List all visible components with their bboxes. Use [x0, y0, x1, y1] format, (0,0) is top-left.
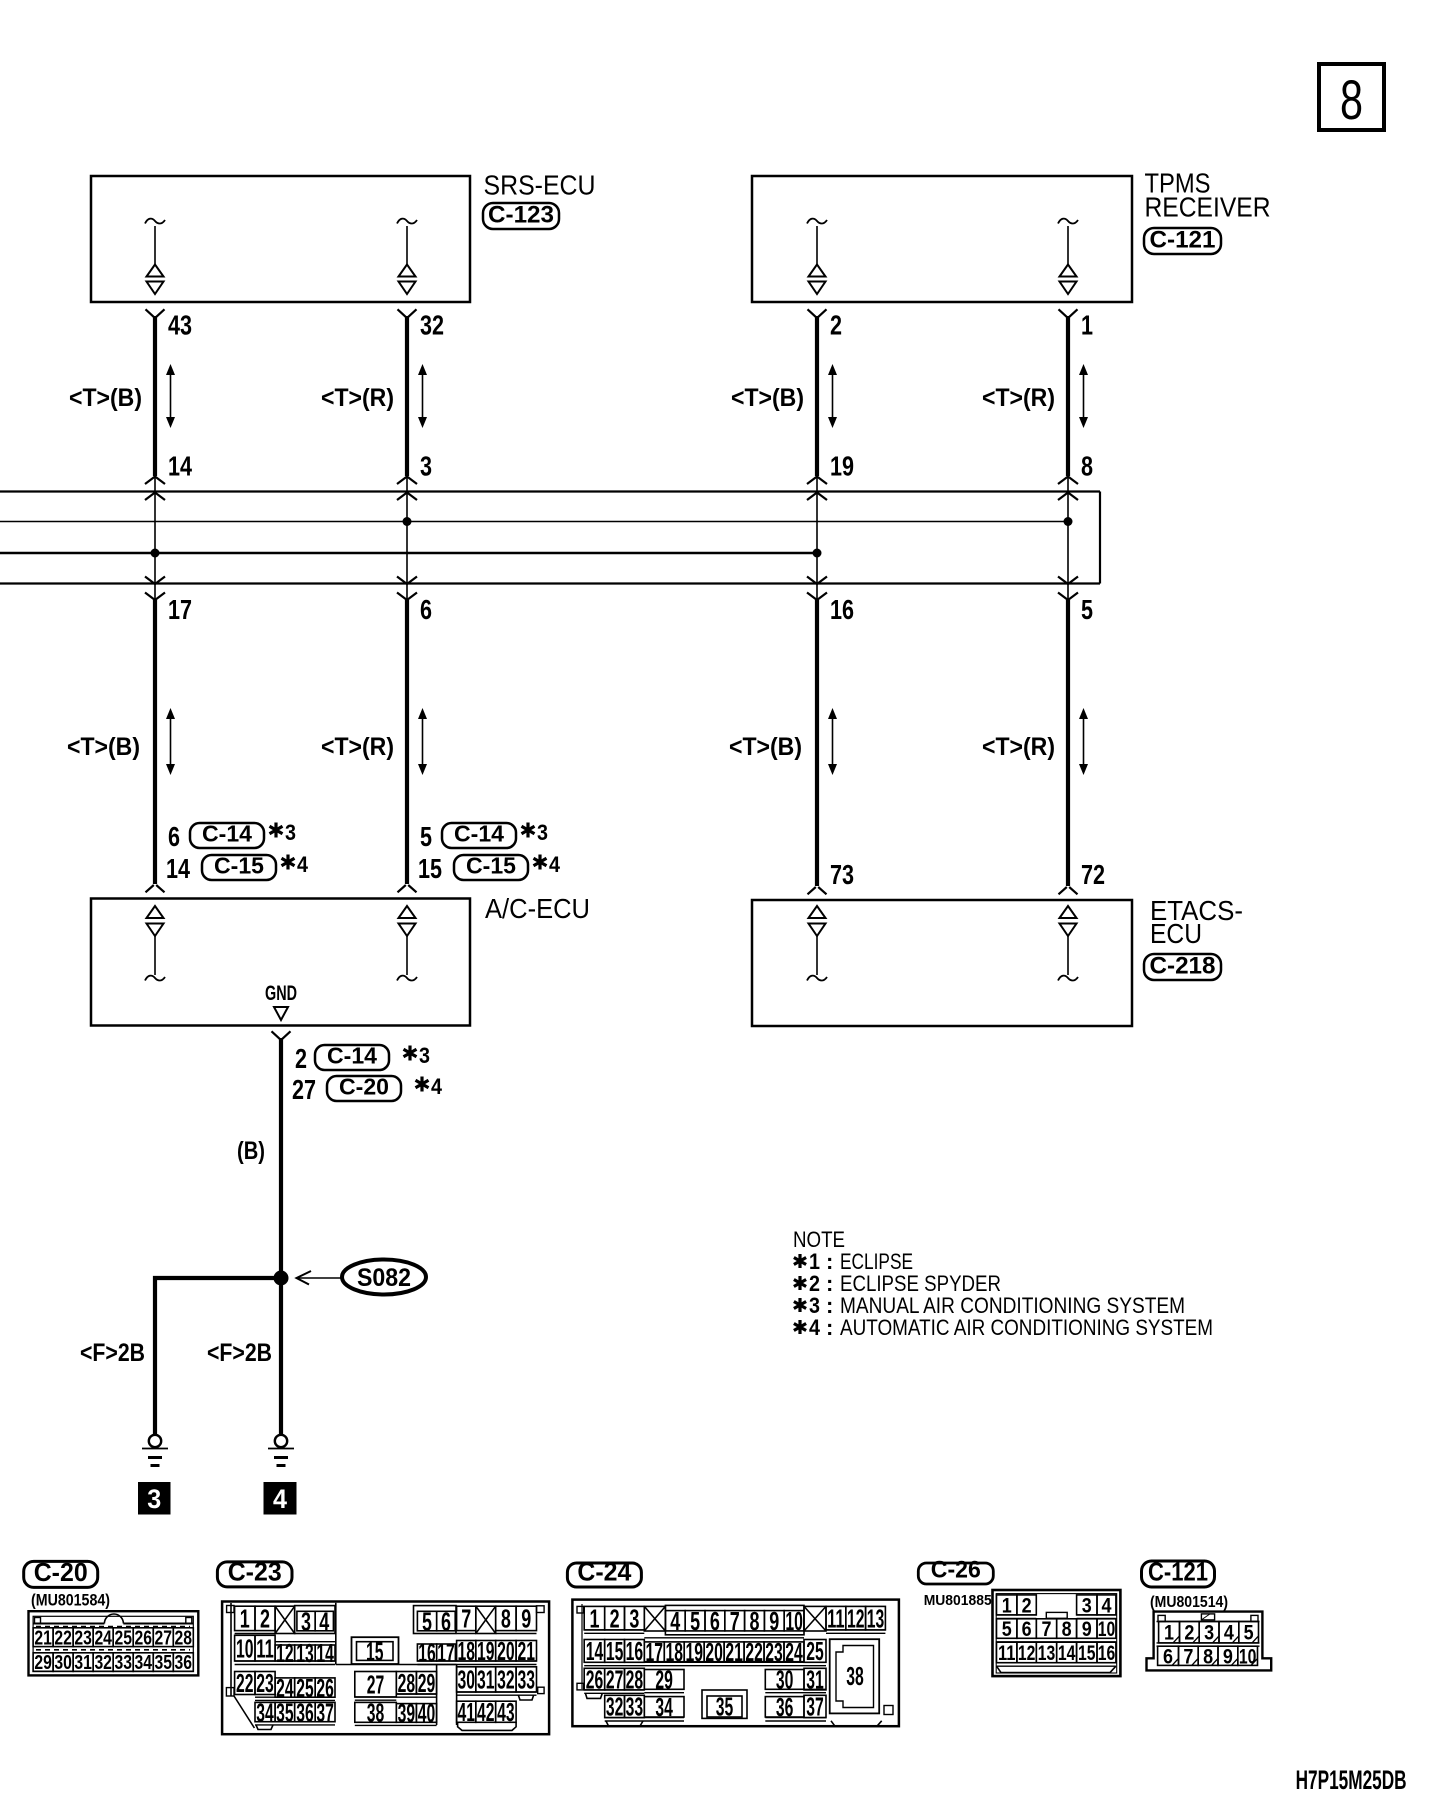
svg-text:3: 3	[629, 1603, 639, 1633]
svg-text:8: 8	[750, 1606, 760, 1636]
svg-text:5: 5	[422, 1606, 432, 1636]
svg-text:<F>2B: <F>2B	[207, 1339, 272, 1367]
svg-text:3: 3	[420, 451, 432, 482]
ground symbol right	[268, 1435, 294, 1466]
svg-text:27: 27	[292, 1074, 316, 1105]
fork entering ETACS-ECU right	[1059, 887, 1078, 894]
svg-text:C-123: C-123	[488, 202, 554, 229]
C-23 inner structure	[230, 1603, 232, 1696]
svg-text:(MU801514): (MU801514)	[1150, 1594, 1228, 1611]
svg-text:35: 35	[276, 1697, 294, 1727]
terminal chevrons leaving bus at x=1068	[1058, 577, 1078, 585]
ECU box TPMS RECEIVER	[752, 176, 1132, 302]
svg-text:6: 6	[710, 1606, 720, 1636]
fork entering A/C-ECU second	[398, 885, 417, 892]
svg-text:32: 32	[497, 1665, 515, 1695]
svg-text:4: 4	[431, 1074, 443, 1099]
svg-text:16: 16	[1098, 1642, 1116, 1665]
wire pin 1 down to joint	[1066, 316, 1070, 476]
svg-text:<T>(R): <T>(R)	[982, 733, 1055, 761]
svg-text:3: 3	[1204, 1622, 1214, 1645]
svg-text:38: 38	[846, 1661, 864, 1691]
svg-text:C-121: C-121	[1148, 1557, 1208, 1587]
svg-text:34: 34	[256, 1697, 274, 1727]
svg-text:19: 19	[830, 451, 854, 482]
svg-text:5: 5	[1002, 1618, 1012, 1641]
svg-text:C-24: C-24	[577, 1557, 632, 1587]
note *2 : ECLIPSE SPYDER	[794, 1276, 806, 1290]
ground reference box 3	[138, 1482, 171, 1515]
svg-text:5: 5	[1081, 594, 1093, 625]
svg-text:2: 2	[1184, 1622, 1194, 1645]
svg-text:26: 26	[134, 1627, 152, 1649]
wire pin 2 down to joint	[815, 316, 819, 476]
svg-text:4: 4	[670, 1606, 680, 1636]
svg-text:C-15: C-15	[466, 853, 516, 879]
joint connector right edge	[1099, 492, 1101, 584]
C-26 row1 pins 1-4	[997, 1595, 1017, 1615]
svg-text:28: 28	[175, 1627, 193, 1649]
svg-text:17: 17	[168, 594, 192, 625]
C-23 row2 pins 10-21	[235, 1635, 255, 1661]
svg-text:C-218: C-218	[1150, 953, 1216, 980]
svg-text:2: 2	[1022, 1594, 1032, 1617]
fork entering ETACS-ECU left	[808, 887, 827, 894]
C-23 row2 pins 16-21	[417, 1644, 436, 1661]
svg-text:5: 5	[690, 1606, 700, 1636]
svg-text:38: 38	[367, 1698, 385, 1728]
C-24 row3 pins 26-31	[584, 1668, 605, 1690]
svg-text:35: 35	[716, 1692, 734, 1722]
svg-text:8: 8	[501, 1604, 511, 1634]
C-121 connector body	[1147, 1612, 1272, 1671]
svg-text:37: 37	[316, 1697, 334, 1727]
terminal chevrons entering bus at x=407	[397, 477, 417, 485]
svg-text:30: 30	[54, 1652, 72, 1674]
C-24 connector body	[572, 1600, 899, 1727]
connector label C-218	[1144, 954, 1221, 980]
splice junction dot S082	[274, 1271, 289, 1286]
svg-text:3: 3	[419, 1043, 430, 1068]
svg-text:8: 8	[1062, 1618, 1072, 1641]
svg-text:43: 43	[168, 310, 192, 341]
connector view C-121 label	[1142, 1561, 1215, 1587]
connector view C-24 label	[567, 1563, 641, 1587]
svg-text:4: 4	[273, 1484, 287, 1514]
fork entering A/C-ECU left	[146, 885, 165, 892]
svg-text:27: 27	[367, 1669, 385, 1699]
svg-text::: :	[826, 1315, 833, 1340]
svg-text:11: 11	[827, 1603, 845, 1633]
connector view C-20 label	[24, 1561, 98, 1587]
svg-text:RECEIVER: RECEIVER	[1145, 192, 1271, 223]
C-23 row1 pins 1-9	[235, 1606, 255, 1630]
ECU box A/C-ECU	[91, 899, 470, 1026]
C-24 row2 pins 14-25	[584, 1640, 605, 1663]
svg-text:23: 23	[256, 1668, 274, 1698]
svg-text:34: 34	[134, 1652, 152, 1674]
junction dot wire B right	[813, 549, 822, 558]
svg-text:42: 42	[477, 1697, 495, 1727]
svg-text:9: 9	[1082, 1618, 1092, 1641]
TPMS internal terminal pin 2	[807, 219, 827, 294]
ground symbol left	[142, 1435, 168, 1466]
svg-text:4: 4	[297, 852, 309, 877]
svg-text:C-14: C-14	[202, 821, 252, 847]
svg-text:2: 2	[830, 310, 842, 341]
connector view C-23 label	[217, 1562, 292, 1587]
ground reference box 4	[264, 1482, 297, 1515]
svg-text:13: 13	[1038, 1642, 1056, 1665]
joint connector bus line B (to other page)	[0, 552, 817, 555]
C-26 row3 pins 11-16	[997, 1642, 1017, 1663]
A/C-ECU internal terminal left	[145, 906, 165, 981]
svg-text:7: 7	[730, 1606, 740, 1636]
svg-text:3: 3	[1082, 1594, 1092, 1617]
C-20 latch strip	[35, 1618, 41, 1624]
svg-text:AUTOMATIC AIR CONDITIONING SYS: AUTOMATIC AIR CONDITIONING SYSTEM	[840, 1315, 1213, 1340]
C-24 pin 38 large cavity	[830, 1639, 880, 1713]
svg-text:13: 13	[296, 1638, 314, 1668]
svg-text:25: 25	[114, 1627, 132, 1649]
svg-text:<T>(B): <T>(B)	[67, 733, 140, 761]
C-23 connector body	[222, 1602, 549, 1735]
ETACS internal terminal right	[1058, 906, 1078, 981]
C-23 row3 pins 22-33	[235, 1672, 255, 1695]
svg-text:<T>(R): <T>(R)	[321, 733, 394, 761]
junction dot wire R left	[403, 517, 412, 526]
joint connector bottom edge	[0, 582, 1100, 584]
svg-text:7: 7	[461, 1604, 471, 1634]
svg-text:<T>(R): <T>(R)	[321, 384, 394, 412]
ECU box SRS-ECU	[91, 176, 470, 302]
C-26 connector body	[993, 1590, 1121, 1676]
svg-text:SRS-ECU: SRS-ECU	[484, 170, 596, 201]
svg-text:4: 4	[1224, 1622, 1234, 1645]
svg-text:MU801885: MU801885	[924, 1592, 992, 1609]
svg-text:7: 7	[1042, 1618, 1052, 1641]
svg-text:C-14: C-14	[327, 1043, 377, 1069]
fork exiting A/C-ECU GND	[272, 1031, 291, 1039]
svg-text:17: 17	[437, 1638, 455, 1668]
svg-text:C-26: C-26	[931, 1557, 981, 1584]
svg-text:13: 13	[867, 1603, 885, 1633]
joint connector top edge	[0, 490, 1100, 492]
C-20 pins 29-36	[33, 1653, 53, 1672]
svg-text:14: 14	[1058, 1642, 1076, 1665]
svg-text:C-14: C-14	[454, 821, 504, 847]
svg-text:2: 2	[610, 1603, 620, 1633]
bus-through wire at x=1068	[1067, 476, 1069, 600]
svg-text:3: 3	[301, 1606, 311, 1636]
svg-text:4: 4	[549, 852, 561, 877]
svg-text:3: 3	[537, 820, 548, 845]
svg-text:6: 6	[1163, 1645, 1173, 1668]
ground wire (B)	[279, 1038, 283, 1278]
svg-text:3: 3	[147, 1484, 161, 1514]
C-23 row4 pins 34-43	[255, 1702, 275, 1721]
svg-text:6: 6	[1022, 1618, 1032, 1641]
terminal chevrons leaving bus at x=407	[397, 577, 417, 585]
C-121 row1 pins 1-5	[1159, 1622, 1180, 1643]
svg-text:5: 5	[420, 821, 432, 852]
svg-text:1: 1	[1164, 1622, 1174, 1645]
svg-text:(B): (B)	[237, 1137, 265, 1165]
C-24 row4 pins 32-37	[605, 1695, 625, 1717]
SRS-ECU internal terminal pin 32	[397, 219, 417, 294]
svg-text:H7P15M25DB: H7P15M25DB	[1296, 1765, 1407, 1795]
svg-text:4: 4	[809, 1315, 821, 1340]
svg-text:16: 16	[418, 1638, 436, 1668]
svg-text:14: 14	[316, 1638, 334, 1668]
ETACS internal terminal left	[807, 906, 827, 981]
svg-text:8: 8	[1081, 451, 1093, 482]
svg-text:14: 14	[166, 853, 190, 884]
svg-text:4: 4	[319, 1606, 329, 1636]
svg-text:<T>(R): <T>(R)	[982, 384, 1055, 412]
splice label S082 ellipse	[342, 1260, 426, 1295]
twisted pair arrow lower at x=817	[832, 717, 834, 766]
svg-text:31: 31	[74, 1652, 92, 1674]
C-24 row1 pins 1-13	[584, 1606, 605, 1630]
C-26 bottom foot	[997, 1666, 1116, 1672]
connector label C-121	[1144, 228, 1221, 254]
svg-text:1: 1	[589, 1603, 599, 1633]
svg-text:C-15: C-15	[214, 853, 264, 879]
svg-text:21: 21	[34, 1627, 52, 1649]
joint connector bus line R (to other page)	[0, 521, 1068, 523]
wire 5 to ETACS-ECU	[1066, 600, 1070, 886]
C-23 pin 15 box	[352, 1637, 399, 1664]
terminal chevrons leaving bus at x=817	[807, 577, 827, 585]
svg-text:<T>(B): <T>(B)	[731, 384, 804, 412]
svg-text:ECU: ECU	[1150, 918, 1202, 949]
SRS-ECU internal terminal pin 43	[145, 219, 165, 294]
twisted pair arrow 1	[1083, 373, 1085, 419]
svg-text:A/C-ECU: A/C-ECU	[485, 893, 590, 924]
wire pin 32 down to joint	[405, 316, 409, 476]
svg-text:15: 15	[366, 1636, 384, 1666]
svg-text:36: 36	[296, 1697, 314, 1727]
connector fork at box exit, wire 2	[808, 309, 827, 317]
svg-text:73: 73	[830, 859, 854, 890]
C-26 row2 pins 5-10	[997, 1619, 1017, 1639]
svg-text:5: 5	[1244, 1622, 1254, 1645]
svg-text:11: 11	[998, 1642, 1016, 1665]
svg-text:22: 22	[54, 1627, 72, 1649]
svg-text:40: 40	[418, 1698, 436, 1728]
svg-text:8: 8	[1340, 68, 1363, 131]
TPMS internal terminal pin 1	[1058, 219, 1078, 294]
svg-text:12: 12	[847, 1603, 865, 1633]
junction dot wire B left	[151, 549, 160, 558]
A/C-ECU internal terminal second	[397, 906, 417, 981]
svg-text:23: 23	[74, 1627, 92, 1649]
twisted pair arrow lower at x=155	[170, 717, 172, 766]
svg-text:<F>2B: <F>2B	[80, 1339, 145, 1367]
svg-text:39: 39	[398, 1698, 416, 1728]
connector label C-123	[483, 203, 559, 229]
svg-text:15: 15	[418, 853, 442, 884]
note *4 : AUTOMATIC AIR CONDITIONING SYSTEM	[794, 1320, 806, 1334]
svg-text:72: 72	[1081, 859, 1105, 890]
svg-text:11: 11	[256, 1633, 274, 1663]
svg-text:33: 33	[114, 1652, 132, 1674]
svg-text:15: 15	[1078, 1642, 1096, 1665]
svg-text:10: 10	[1098, 1618, 1116, 1641]
svg-text:10: 10	[1239, 1645, 1257, 1668]
svg-text:16: 16	[830, 594, 854, 625]
twisted pair arrow 32	[422, 373, 424, 419]
terminal chevrons entering bus at x=155	[145, 477, 165, 485]
C-20 connector body	[29, 1611, 199, 1675]
arrow pointing to splice	[298, 1277, 341, 1279]
svg-text:35: 35	[155, 1652, 173, 1674]
svg-text:32: 32	[420, 310, 444, 341]
C-121 row2 pins 6-10	[1158, 1646, 1179, 1665]
ECU box ETACS-ECU	[752, 900, 1132, 1026]
svg-text:1: 1	[1002, 1594, 1012, 1617]
svg-text:6: 6	[441, 1606, 451, 1636]
right wire to ground	[279, 1278, 283, 1434]
connector view C-26 label	[918, 1563, 993, 1584]
svg-text:4: 4	[1101, 1594, 1111, 1617]
twisted pair arrow lower at x=407	[422, 717, 424, 766]
svg-text:(MU801584): (MU801584)	[31, 1591, 110, 1610]
twisted pair arrow 2	[832, 373, 834, 419]
svg-text:12: 12	[1018, 1642, 1036, 1665]
svg-text:<T>(B): <T>(B)	[729, 733, 802, 761]
svg-text:43: 43	[497, 1697, 515, 1727]
svg-text:9: 9	[521, 1604, 531, 1634]
svg-text:2: 2	[295, 1043, 307, 1074]
bus-through wire at x=817	[816, 476, 818, 600]
svg-text:12: 12	[276, 1638, 294, 1668]
svg-text:C-121: C-121	[1150, 227, 1216, 254]
wire 17 to A/C-ECU	[153, 600, 157, 884]
svg-text:41: 41	[457, 1697, 475, 1727]
svg-text:32: 32	[94, 1652, 112, 1674]
terminal chevrons entering bus at x=1068	[1058, 477, 1078, 485]
note *1 : ECLIPSE	[794, 1254, 806, 1268]
terminal chevrons leaving bus at x=155	[145, 577, 165, 585]
C-24 inner walls	[577, 1606, 584, 1613]
svg-text:C-23: C-23	[228, 1556, 282, 1586]
svg-text:22: 22	[236, 1668, 254, 1698]
svg-text:29: 29	[34, 1652, 52, 1674]
svg-text:24: 24	[94, 1627, 112, 1649]
connector fork at box exit, wire 32	[398, 309, 417, 317]
svg-text:6: 6	[420, 594, 432, 625]
page number 8 box	[1319, 64, 1384, 130]
svg-text:27: 27	[155, 1627, 173, 1649]
twisted pair arrow lower at x=1068	[1083, 717, 1085, 766]
svg-text:<T>(B): <T>(B)	[69, 384, 142, 412]
wire 6 to A/C-ECU	[405, 600, 409, 884]
svg-text:C-20: C-20	[34, 1557, 88, 1587]
svg-text:10: 10	[236, 1633, 254, 1663]
junction dot wire R right	[1064, 517, 1073, 526]
wire 16 to ETACS-ECU	[815, 600, 819, 886]
GND terminal triangle	[274, 1007, 288, 1020]
svg-text:31: 31	[477, 1665, 495, 1695]
wire pin 43 down to joint	[153, 316, 157, 476]
svg-text:14: 14	[168, 451, 192, 482]
svg-text:6: 6	[168, 821, 180, 852]
svg-text:1: 1	[240, 1604, 250, 1634]
bus-through wire at x=407	[406, 476, 408, 600]
svg-text:S082: S082	[357, 1264, 411, 1292]
branch wire to left ground	[155, 1278, 281, 1434]
bus-through wire at x=155	[154, 476, 156, 600]
connector fork at box exit, wire 1	[1059, 309, 1078, 317]
svg-text:30: 30	[457, 1665, 475, 1695]
svg-text:9: 9	[769, 1606, 779, 1636]
svg-text:2: 2	[260, 1604, 270, 1634]
svg-text:30: 30	[776, 1665, 794, 1695]
svg-text:33: 33	[518, 1665, 536, 1695]
svg-text:C-20: C-20	[339, 1074, 389, 1100]
svg-text:10: 10	[785, 1606, 803, 1636]
svg-text:3: 3	[285, 820, 296, 845]
connector fork at box exit, wire 43	[146, 309, 165, 317]
svg-text:36: 36	[175, 1652, 193, 1674]
C-20 pins 21-28	[33, 1628, 53, 1647]
svg-text:1: 1	[1081, 310, 1093, 341]
svg-text:29: 29	[655, 1665, 673, 1695]
svg-text:GND: GND	[265, 982, 297, 1005]
note *3 : MANUAL AIR CONDITIONING SYSTEM	[794, 1298, 806, 1312]
terminal chevrons entering bus at x=817	[807, 477, 827, 485]
twisted pair arrow 43	[170, 373, 172, 419]
